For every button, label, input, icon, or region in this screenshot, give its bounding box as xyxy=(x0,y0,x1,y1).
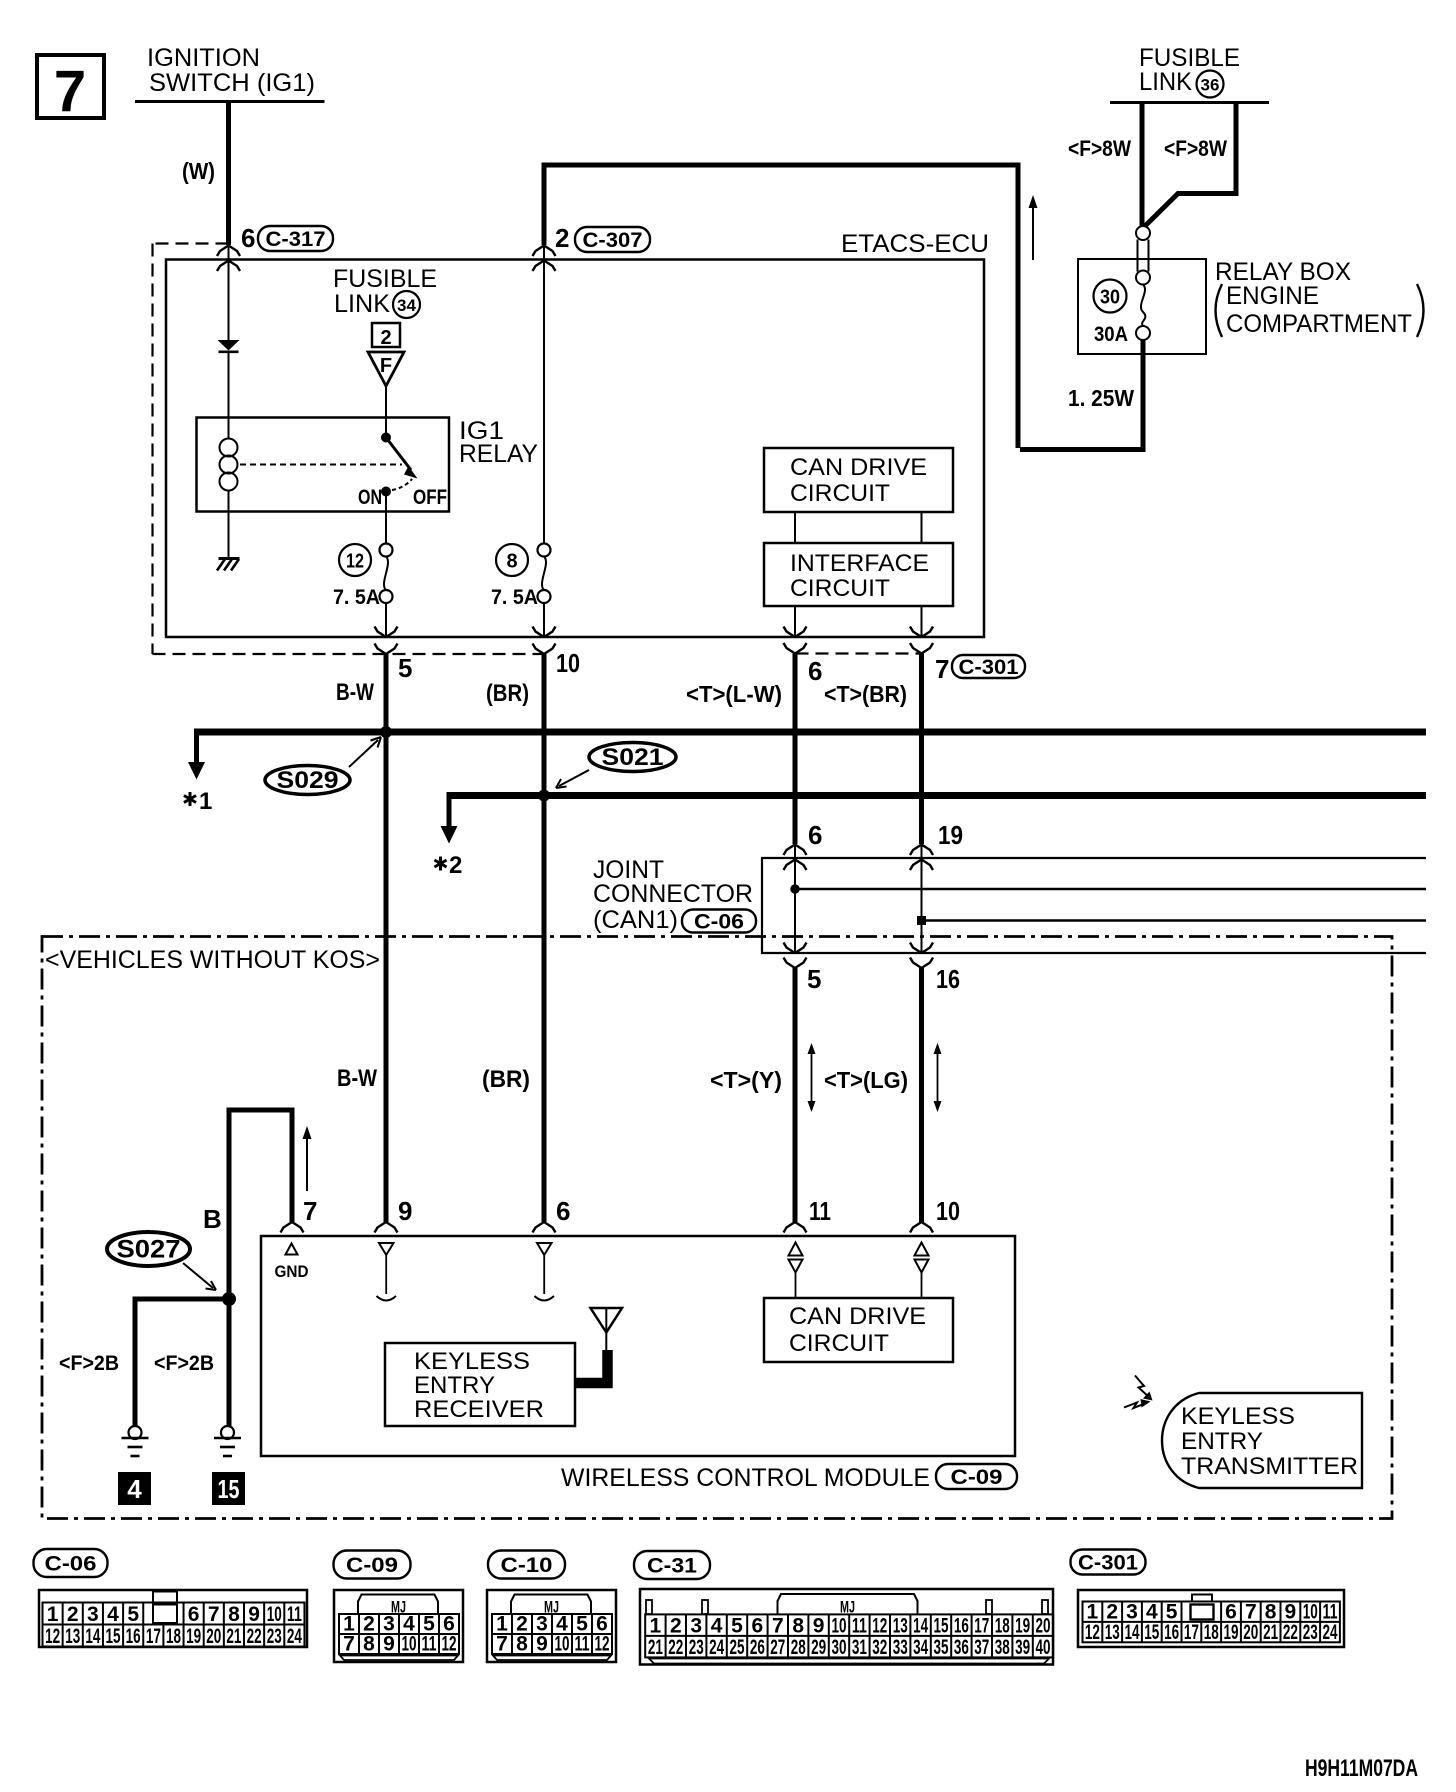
svg-text:16: 16 xyxy=(126,1625,141,1648)
wire (BR) pin10 to S021 xyxy=(542,654,547,796)
CAN branch wire 2 xyxy=(922,919,1427,922)
svg-text:OFF: OFF xyxy=(413,486,447,509)
svg-text:5: 5 xyxy=(398,653,412,683)
svg-text:<T>(Y): <T>(Y) xyxy=(710,1067,782,1093)
svg-text:37: 37 xyxy=(974,1636,989,1659)
wire fuse 8 to pin 10 xyxy=(543,603,545,637)
svg-text:(BR): (BR) xyxy=(486,680,529,707)
svg-text:TRANSMITTER: TRANSMITTER xyxy=(1181,1453,1358,1480)
CAN drive circuit box (ETACS) xyxy=(764,448,953,512)
vehicles without KOS boundary xyxy=(42,937,1392,1519)
svg-text:36: 36 xyxy=(1201,76,1220,95)
svg-text:7: 7 xyxy=(54,59,86,124)
svg-text:24: 24 xyxy=(709,1636,724,1659)
svg-text:16: 16 xyxy=(936,964,960,994)
svg-text:6: 6 xyxy=(752,1614,764,1637)
svg-text:19: 19 xyxy=(938,820,963,850)
relay switch arm xyxy=(386,438,411,471)
svg-text:6: 6 xyxy=(188,1603,200,1626)
CAN bus wire 2 xyxy=(447,792,1427,799)
svg-text:<F>8W: <F>8W xyxy=(1164,136,1227,161)
wire F to relay xyxy=(385,386,387,437)
fusible link 34 box 2 symbol xyxy=(372,323,400,347)
CAN bus wire 1 xyxy=(194,729,1426,736)
svg-text:33: 33 xyxy=(893,1636,908,1659)
label *1 xyxy=(189,792,192,806)
svg-text:1: 1 xyxy=(47,1603,59,1626)
relay box (engine compartment) outline xyxy=(1078,259,1206,354)
svg-text:7: 7 xyxy=(343,1633,355,1656)
chassis ground relay coil xyxy=(219,557,240,560)
wire B-W to module pin 9 xyxy=(384,732,389,1222)
chevrons pin 6 C-317 xyxy=(217,246,240,257)
connector C-301 label xyxy=(952,655,1025,678)
svg-text:GND: GND xyxy=(275,1262,309,1281)
bus 2 stub arrow *2 xyxy=(447,796,452,828)
svg-text:13: 13 xyxy=(893,1614,908,1637)
svg-text:36: 36 xyxy=(954,1636,969,1659)
ignition switch bus bar xyxy=(135,100,325,103)
dashed connector boundary C-317/C-301 xyxy=(153,242,229,244)
svg-text:8: 8 xyxy=(363,1633,375,1656)
chevrons pin 5 xyxy=(375,627,398,638)
fuse 12 xyxy=(380,544,393,557)
svg-text:1: 1 xyxy=(199,788,212,815)
svg-text:H9H11M07DA: H9H11M07DA xyxy=(1305,1755,1418,1782)
svg-text:B-W: B-W xyxy=(337,1065,377,1092)
svg-text:18: 18 xyxy=(995,1614,1010,1637)
module CAN buffer symbols pin 11 xyxy=(789,1243,803,1256)
relay coil xyxy=(228,418,230,440)
svg-text:9: 9 xyxy=(383,1633,395,1656)
wire relay ON to fuse 12 xyxy=(385,492,387,544)
svg-text:34: 34 xyxy=(913,1636,928,1659)
joint connector junction left xyxy=(791,885,799,893)
ground reference 4 xyxy=(118,1472,151,1505)
svg-text:(CAN1): (CAN1) xyxy=(593,906,678,934)
svg-text:LINK: LINK xyxy=(1139,68,1192,96)
svg-text:1. 25W: 1. 25W xyxy=(1068,385,1134,411)
svg-text:6: 6 xyxy=(808,820,822,850)
svg-text:18: 18 xyxy=(1204,1621,1219,1644)
svg-text:25: 25 xyxy=(730,1636,745,1659)
fuse 8 xyxy=(538,544,551,557)
chevrons pin 10 xyxy=(533,627,556,638)
ground reference 15 xyxy=(212,1472,245,1505)
wire <T>(BR) pin7 to joint connector xyxy=(919,654,924,845)
svg-text:16: 16 xyxy=(954,1614,969,1637)
wire B-W pin5 to S029 xyxy=(384,654,389,732)
connector C-307 label xyxy=(575,227,650,252)
keyless entry receiver box xyxy=(385,1343,575,1426)
wire fusible link right <F>8W xyxy=(1145,103,1236,227)
splice junction S021 xyxy=(539,790,550,801)
svg-text:12: 12 xyxy=(346,551,364,573)
flow arrow double near pin 5 xyxy=(811,1045,813,1110)
svg-text:C-09: C-09 xyxy=(951,1466,1003,1489)
svg-text:26: 26 xyxy=(750,1636,765,1659)
svg-text:INTERFACE: INTERFACE xyxy=(790,550,929,577)
svg-text:4: 4 xyxy=(107,1603,119,1626)
ground symbol right xyxy=(221,1426,234,1439)
svg-text:23: 23 xyxy=(689,1636,704,1659)
svg-text:10: 10 xyxy=(402,1633,417,1656)
fusible link 36 bus bar xyxy=(1110,101,1269,104)
chevrons joint pin 6 xyxy=(784,845,807,856)
svg-text:15: 15 xyxy=(1144,1621,1159,1644)
svg-text:17: 17 xyxy=(974,1614,989,1637)
connector C-317 label xyxy=(258,226,333,251)
svg-text:10: 10 xyxy=(936,1196,960,1226)
svg-text:7: 7 xyxy=(772,1614,784,1637)
svg-text:COMPARTMENT: COMPARTMENT xyxy=(1226,310,1412,338)
svg-text:WIRELESS CONTROL MODULE: WIRELESS CONTROL MODULE xyxy=(561,1464,930,1492)
svg-text:30A: 30A xyxy=(1094,323,1128,346)
svg-text:7: 7 xyxy=(496,1633,508,1656)
svg-text:CIRCUIT: CIRCUIT xyxy=(790,575,890,602)
ETACS-ECU box xyxy=(166,260,984,638)
connector C-09 label (module) xyxy=(936,1464,1017,1489)
svg-text:4: 4 xyxy=(127,1474,142,1504)
svg-text:(W): (W) xyxy=(182,158,215,184)
svg-text:1: 1 xyxy=(650,1614,662,1637)
svg-text:28: 28 xyxy=(791,1636,806,1659)
svg-text:27: 27 xyxy=(770,1636,785,1659)
svg-text:LINK: LINK xyxy=(334,290,390,318)
splice junction S029 xyxy=(381,727,392,738)
svg-text:<VEHICLES WITHOUT KOS>: <VEHICLES WITHOUT KOS> xyxy=(45,946,380,974)
wires CAN drive to interface xyxy=(794,512,796,543)
bus 1 stub arrow *1 xyxy=(194,732,199,763)
svg-text:7: 7 xyxy=(208,1603,220,1626)
connector C-06 pinout label xyxy=(34,1549,108,1577)
svg-text:29: 29 xyxy=(811,1636,826,1659)
svg-text:2: 2 xyxy=(380,327,391,349)
connector C-09 pinout label xyxy=(334,1551,411,1579)
svg-text:9: 9 xyxy=(248,1603,260,1626)
svg-text:RECEIVER: RECEIVER xyxy=(414,1396,544,1423)
svg-text:22: 22 xyxy=(668,1636,683,1659)
svg-text:10: 10 xyxy=(267,1603,282,1626)
receiver antenna xyxy=(591,1308,623,1333)
svg-text:8: 8 xyxy=(516,1633,528,1656)
svg-text:15: 15 xyxy=(106,1625,121,1648)
splice label S027 xyxy=(107,1232,190,1266)
svg-text:10: 10 xyxy=(555,1633,570,1656)
svg-text:8: 8 xyxy=(228,1603,240,1626)
svg-text:3: 3 xyxy=(690,1614,702,1637)
svg-text:20: 20 xyxy=(1036,1614,1051,1637)
svg-text:<T>(L-W): <T>(L-W) xyxy=(686,681,782,707)
interface circuit box xyxy=(764,543,953,606)
CAN drive circuit box (module) xyxy=(764,1298,953,1362)
connector C-31 pinout label xyxy=(634,1551,710,1579)
svg-text:C-317: C-317 xyxy=(266,228,326,251)
svg-text:12: 12 xyxy=(45,1625,60,1648)
splice junction S027 xyxy=(223,1293,236,1306)
svg-text:C-06: C-06 xyxy=(694,910,744,933)
connector C-31 pinout xyxy=(640,1589,1053,1665)
chevrons joint pin 19 xyxy=(910,845,933,856)
svg-text:5: 5 xyxy=(731,1614,743,1637)
svg-text:12: 12 xyxy=(1085,1621,1100,1644)
module GND pin symbol xyxy=(286,1244,298,1255)
wires interface to pins 6 7 xyxy=(794,606,796,637)
flow arrow up near pin 7 xyxy=(306,1134,308,1191)
wire fusible link left <F>8W xyxy=(1140,103,1145,227)
svg-text:C-09: C-09 xyxy=(346,1554,398,1577)
svg-text:15: 15 xyxy=(934,1614,949,1637)
wire fuse 30 to ETACS feed xyxy=(1020,340,1143,450)
svg-text:FUSIBLE: FUSIBLE xyxy=(333,265,437,293)
svg-text:11: 11 xyxy=(809,1196,831,1226)
wire <T>(Y) to module pin 11 xyxy=(793,968,798,1222)
svg-text:13: 13 xyxy=(1105,1621,1120,1644)
splice label S021 xyxy=(589,743,676,772)
wire fuse 12 to pin 5 xyxy=(385,603,387,637)
svg-text:CONNECTOR: CONNECTOR xyxy=(593,880,753,908)
chevron module pin 11 xyxy=(784,1222,807,1233)
svg-text:KEYLESS: KEYLESS xyxy=(414,1348,530,1375)
svg-text:34: 34 xyxy=(397,296,416,315)
svg-text:30: 30 xyxy=(832,1636,847,1659)
svg-text:12: 12 xyxy=(442,1633,457,1656)
CAN branch wire 1 xyxy=(795,888,1426,891)
wire ETACS to C-307 pin 2 xyxy=(544,165,1018,448)
svg-text:C-06: C-06 xyxy=(45,1552,97,1575)
svg-text:ENTRY: ENTRY xyxy=(1181,1428,1263,1455)
svg-text:10: 10 xyxy=(556,648,580,678)
svg-text:CIRCUIT: CIRCUIT xyxy=(790,480,890,507)
svg-text:12: 12 xyxy=(595,1633,610,1656)
label *2 xyxy=(439,857,442,871)
chevrons pin 7 C-301 xyxy=(910,627,933,638)
connector C-06 label (joint) xyxy=(682,910,756,933)
wire pin 2 to fuse 8 xyxy=(543,246,545,544)
joint connector internal wire right xyxy=(921,845,923,954)
wire <T>(L-W) pin6 to joint connector xyxy=(793,654,798,845)
svg-text:2: 2 xyxy=(67,1603,79,1626)
wire pin6 to relay xyxy=(228,246,230,341)
svg-text:22: 22 xyxy=(1283,1621,1298,1644)
svg-text:7. 5A: 7. 5A xyxy=(491,586,538,609)
svg-text:F: F xyxy=(380,355,392,377)
svg-text:C-307: C-307 xyxy=(583,229,643,252)
svg-text:21: 21 xyxy=(226,1625,241,1648)
svg-text:9: 9 xyxy=(813,1614,825,1637)
svg-text:CAN DRIVE: CAN DRIVE xyxy=(789,1303,926,1330)
connector C-10 pinout label xyxy=(488,1551,565,1579)
svg-text:<F>8W: <F>8W xyxy=(1068,136,1131,161)
joint connector box xyxy=(762,858,1426,953)
fusible link 34 F triangle xyxy=(368,352,404,386)
module CAN buffer symbols pin 10 xyxy=(915,1243,929,1256)
svg-text:ENGINE: ENGINE xyxy=(1226,282,1319,310)
svg-text:<F>2B: <F>2B xyxy=(154,1352,214,1375)
svg-text:17: 17 xyxy=(1184,1621,1199,1644)
wire (BR) to module pin 6 xyxy=(542,796,547,1223)
wire (W) from ignition switch xyxy=(226,102,231,246)
connector C-10 pinout xyxy=(487,1590,616,1662)
svg-text:32: 32 xyxy=(872,1636,887,1659)
svg-text:22: 22 xyxy=(247,1625,262,1648)
connector C-06 pinout xyxy=(39,1590,307,1647)
svg-text:S021: S021 xyxy=(602,744,664,771)
wireless control module box xyxy=(261,1236,1015,1456)
splice label S029 xyxy=(265,766,350,795)
chevron module pin 7 xyxy=(281,1222,304,1233)
joint connector internal wire left xyxy=(794,845,796,954)
svg-text:S027: S027 xyxy=(117,1236,181,1264)
diode xyxy=(218,340,240,351)
svg-text:8: 8 xyxy=(506,551,517,573)
module receiver input symbol pin 9 xyxy=(379,1243,394,1255)
svg-text:21: 21 xyxy=(648,1636,663,1659)
svg-text:C-301: C-301 xyxy=(1078,1551,1138,1574)
svg-text:CIRCUIT: CIRCUIT xyxy=(789,1330,889,1357)
relay OFF dashed arc xyxy=(392,479,412,490)
relay ON contact xyxy=(382,487,391,496)
svg-text:3: 3 xyxy=(87,1603,99,1626)
chevron module pin 10 xyxy=(910,1222,933,1233)
chevron module pin 6 xyxy=(533,1222,556,1233)
svg-text:B: B xyxy=(203,1204,222,1234)
svg-text:<T>(BR): <T>(BR) xyxy=(824,681,907,707)
svg-text:ON: ON xyxy=(358,486,382,509)
svg-text:24: 24 xyxy=(1323,1621,1338,1644)
relay actuation dashed link xyxy=(240,464,402,466)
svg-text:KEYLESS: KEYLESS xyxy=(1181,1403,1295,1430)
connector C-301 pinout xyxy=(1078,1590,1344,1647)
svg-text:19: 19 xyxy=(1015,1614,1030,1637)
svg-text:C-301: C-301 xyxy=(959,656,1019,679)
svg-text:30: 30 xyxy=(1100,287,1120,309)
svg-text:14: 14 xyxy=(85,1625,100,1648)
chevron module pin 9 xyxy=(375,1222,398,1233)
svg-text:16: 16 xyxy=(1164,1621,1179,1644)
svg-text:5: 5 xyxy=(127,1603,139,1626)
connector C-301 pinout label xyxy=(1071,1550,1146,1575)
svg-text:13: 13 xyxy=(65,1625,80,1648)
svg-text:4: 4 xyxy=(711,1614,723,1637)
svg-text:14: 14 xyxy=(913,1614,928,1637)
svg-text:38: 38 xyxy=(995,1636,1010,1659)
svg-text:7: 7 xyxy=(303,1196,317,1226)
svg-text:11: 11 xyxy=(422,1633,437,1656)
svg-text:23: 23 xyxy=(267,1625,282,1648)
IG1 relay box xyxy=(197,418,450,512)
svg-text:9: 9 xyxy=(536,1633,548,1656)
svg-text:B-W: B-W xyxy=(336,679,374,706)
wire relay to ground xyxy=(228,512,230,559)
chevrons pin 6 C-301 xyxy=(784,627,807,638)
svg-text:11: 11 xyxy=(852,1614,867,1637)
svg-text:18: 18 xyxy=(166,1625,181,1648)
svg-text:6: 6 xyxy=(556,1196,570,1226)
svg-text:7. 5A: 7. 5A xyxy=(333,586,380,609)
svg-text:20: 20 xyxy=(1243,1621,1258,1644)
wire <T>(LG) to module pin 10 xyxy=(919,968,924,1222)
svg-text:12: 12 xyxy=(872,1614,887,1637)
svg-text:ENTRY: ENTRY xyxy=(414,1372,495,1399)
connector C-09 pinout xyxy=(334,1590,463,1662)
svg-text:24: 24 xyxy=(287,1625,302,1648)
wire S027 to grounds xyxy=(135,1299,229,1426)
svg-text:<F>2B: <F>2B xyxy=(59,1352,119,1375)
svg-text:5: 5 xyxy=(807,964,821,994)
fuse 8 circled label xyxy=(496,544,528,576)
svg-text:15: 15 xyxy=(218,1474,240,1504)
svg-text:C-10: C-10 xyxy=(501,1554,553,1577)
svg-text:39: 39 xyxy=(1015,1636,1030,1659)
flow arrow double near pin 16 xyxy=(937,1045,939,1110)
chevrons joint pin 16 xyxy=(910,943,933,954)
svg-text:35: 35 xyxy=(934,1636,949,1659)
svg-text:CAN DRIVE: CAN DRIVE xyxy=(790,454,927,481)
svg-text:RELAY: RELAY xyxy=(459,440,538,468)
flow arrow up near relay box wire xyxy=(1032,198,1034,260)
fuse 30 circled label xyxy=(1094,280,1127,313)
svg-text:9: 9 xyxy=(398,1196,412,1226)
antenna feed wire xyxy=(576,1350,608,1383)
module receiver input symbol pin 6 xyxy=(537,1243,552,1255)
svg-text:40: 40 xyxy=(1036,1636,1051,1659)
transmitter signal bolts xyxy=(1135,1376,1149,1398)
fusible link 30 element xyxy=(1136,226,1150,240)
svg-text:21: 21 xyxy=(1263,1621,1278,1644)
fuse 12 circled label xyxy=(339,544,371,576)
svg-text:C-31: C-31 xyxy=(647,1554,697,1577)
svg-text:17: 17 xyxy=(146,1625,161,1648)
svg-text:2: 2 xyxy=(555,223,569,253)
chevrons pin 2 C-307 xyxy=(533,246,556,257)
relay switch pivot xyxy=(382,433,391,442)
ground symbol left xyxy=(129,1426,142,1439)
svg-text:20: 20 xyxy=(206,1625,221,1648)
svg-text:14: 14 xyxy=(1125,1621,1140,1644)
svg-text:8: 8 xyxy=(792,1614,804,1637)
svg-text:SWITCH (IG1): SWITCH (IG1) xyxy=(149,69,315,97)
page number box 7 xyxy=(37,55,104,118)
svg-text:(BR): (BR) xyxy=(482,1066,530,1093)
svg-text:7: 7 xyxy=(935,654,949,684)
svg-text:2: 2 xyxy=(670,1614,682,1637)
chevrons joint pin 5 xyxy=(784,943,807,954)
svg-text:IGNITION: IGNITION xyxy=(147,44,260,72)
svg-text:19: 19 xyxy=(186,1625,201,1648)
svg-text:10: 10 xyxy=(832,1614,847,1637)
svg-text:S029: S029 xyxy=(277,767,339,794)
svg-text:31: 31 xyxy=(852,1636,867,1659)
svg-text:19: 19 xyxy=(1224,1621,1239,1644)
wire B ground loop xyxy=(229,1110,292,1299)
svg-text:6: 6 xyxy=(808,656,822,686)
svg-text:23: 23 xyxy=(1303,1621,1318,1644)
joint connector junction right xyxy=(917,916,926,925)
svg-text:<T>(LG): <T>(LG) xyxy=(824,1067,908,1093)
svg-text:6: 6 xyxy=(241,223,255,253)
svg-text:2: 2 xyxy=(449,852,462,879)
svg-text:11: 11 xyxy=(287,1603,302,1626)
svg-text:ETACS-ECU: ETACS-ECU xyxy=(841,230,989,258)
keyless entry transmitter outline xyxy=(1162,1393,1362,1488)
svg-text:11: 11 xyxy=(575,1633,590,1656)
